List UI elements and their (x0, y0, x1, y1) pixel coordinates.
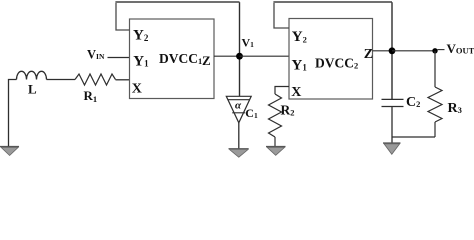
svg-text:α: α (235, 100, 242, 112)
ground (229, 149, 249, 158)
wire (9, 80, 17, 147)
wire R3 bottom to C2 bottom (392, 136, 435, 138)
node Z2 junction (389, 47, 396, 54)
wire (116, 79, 130, 81)
wire (391, 2, 393, 99)
svg-text:Z: Z (364, 47, 373, 62)
wire Y2 feedback loop of DVCC1 (115, 2, 239, 30)
node VOUT terminal (432, 41, 474, 56)
wire (47, 79, 76, 81)
ground (0, 147, 19, 156)
wire (238, 123, 240, 149)
wire (391, 107, 393, 144)
ground (383, 143, 401, 154)
resistor R3 (428, 51, 462, 137)
svg-text:X: X (132, 82, 142, 97)
svg-text:DVCC1: DVCC1 (159, 51, 202, 66)
DVCC block U1 (DVCC1) with pins Y2, Y1, X, Z (130, 19, 215, 99)
resistor R1 (75, 74, 116, 104)
capacitor C2 (382, 95, 421, 110)
wire V1 to Y1 of DVCC2 (240, 55, 290, 57)
wire Z1 to node V1 (214, 55, 240, 57)
resistor R2 (269, 87, 295, 147)
node VIN (87, 48, 130, 62)
node V1 (236, 35, 254, 59)
wire Z2 to output node (373, 50, 393, 52)
svg-text:DVCC2: DVCC2 (315, 56, 358, 71)
wire node to VOUT (392, 50, 435, 52)
capacitor C1 (scaled by alpha) (226, 96, 258, 123)
wire (239, 2, 241, 96)
svg-text:L: L (28, 82, 37, 97)
wire Y2 feedback loop of DVCC2 (273, 2, 392, 28)
svg-text:Z: Z (202, 53, 211, 68)
ground (266, 147, 286, 156)
DVCC block U2 (DVCC2) with pins Y2, Y1, X, Z (289, 19, 373, 101)
svg-text:X: X (291, 85, 301, 100)
inductor L (17, 71, 47, 96)
